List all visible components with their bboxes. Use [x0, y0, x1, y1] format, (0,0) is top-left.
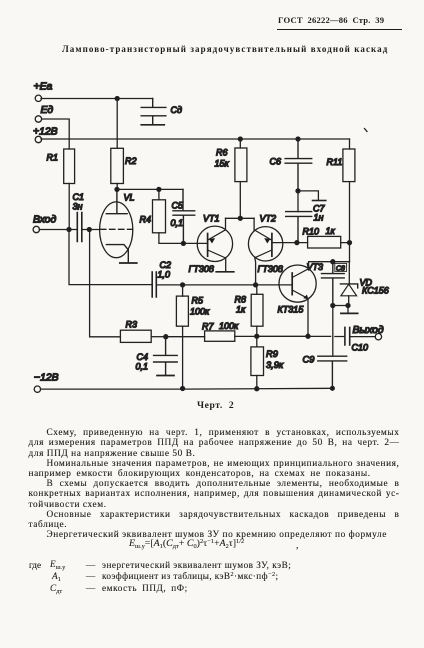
capacitor C2 1,0 (feedback): [152, 260, 171, 297]
terminal Вход: [33, 215, 56, 233]
wire VT3 collector line: [309, 261, 350, 263]
wire R4 bottom to VT1 base: [159, 233, 208, 244]
transistor VT3 КТ315: [278, 262, 324, 315]
svg-text:R6: R6: [216, 148, 228, 158]
svg-text:0,1: 0,1: [136, 362, 149, 372]
svg-text:R8: R8: [235, 295, 247, 305]
wire +Ea rail: [41, 98, 153, 100]
wire R2 bottom to anode node: [116, 184, 118, 190]
node C9 bottom rail corner: [331, 386, 335, 390]
wire input to C1: [39, 229, 77, 231]
svg-text:R1: R1: [47, 153, 59, 163]
svg-text:R2: R2: [125, 156, 137, 166]
page header: [278, 15, 403, 25]
node R9 bottom rail: [255, 387, 259, 391]
resistor R9 3,9к: [251, 347, 284, 376]
capacitor C1 3н: [73, 192, 85, 242]
wire VT3 collector up: [308, 262, 310, 269]
capacitor C8: [322, 262, 347, 306]
node R8/R9/output line: [255, 334, 259, 338]
svg-text:С2: С2: [160, 260, 172, 270]
node R5 bottom rail: [181, 387, 185, 391]
transistor VT1 ГТ308: [189, 214, 233, 275]
ground for Сд: [141, 124, 164, 126]
capacitor C9: [303, 355, 347, 389]
resistor R4: [140, 200, 166, 233]
resistor R3: [120, 320, 151, 343]
wire C10 to output terminal: [350, 336, 375, 338]
ground for C6/C7 node: [313, 200, 326, 202]
ground for zener: [341, 312, 358, 314]
node R10 right / R11 column: [348, 241, 352, 245]
svg-text:ГТ308: ГТ308: [189, 264, 214, 274]
node C8 bottom: [331, 304, 335, 308]
wire R10 leads: [297, 242, 350, 244]
node R4 top: [157, 187, 161, 191]
resistor R11: [327, 149, 355, 182]
resistor R2: [111, 148, 137, 183]
capacitor C4 0,1: [136, 337, 178, 375]
wire R6 leads: [239, 139, 241, 218]
schematic SVG placeholder: [0, 0, 424, 424]
svg-text:С6: С6: [270, 157, 282, 167]
wire R7 line: [166, 335, 308, 337]
wire C8 bottom to zener anode: [333, 306, 348, 313]
svg-text:VT2: VT2: [260, 214, 277, 224]
wire feedback line C2 to VT3 base: [157, 284, 292, 286]
wire R3 right to node X: [151, 336, 166, 338]
resistor R7 100к: [202, 321, 239, 341]
svg-text:1,0: 1,0: [158, 270, 171, 280]
node R10 left: [295, 241, 299, 245]
body paragraphs: [29, 428, 400, 540]
node X (R3/R7/C4): [164, 335, 168, 339]
wire -12В rail: [41, 387, 333, 390]
wire VT2 emitter up: [253, 218, 255, 230]
resistor R5 100к: [176, 296, 210, 327]
svg-text:0,1: 0,1: [171, 218, 184, 228]
node C6 top: [296, 137, 300, 141]
definitions list: [29, 560, 41, 570]
wire C1 to tube grid: [82, 229, 100, 231]
svg-text:R9: R9: [266, 349, 278, 359]
terminal -12В: [34, 373, 59, 393]
terminal Выход: [353, 325, 384, 340]
ground for C4: [157, 375, 174, 377]
resistor R8 1к: [235, 294, 264, 326]
svg-text:+12В: +12В: [33, 127, 58, 138]
svg-text:Выход: Выход: [353, 325, 384, 336]
svg-text:R7: R7: [202, 322, 214, 332]
transistor VT2 ГТ308: [248, 214, 283, 275]
node anode: [115, 187, 119, 191]
svg-text:Ед: Ед: [41, 105, 54, 116]
capacitor C6: [270, 139, 312, 191]
node C8 top: [331, 260, 335, 264]
zener diode VD КС156: [340, 262, 388, 306]
svg-text:1к: 1к: [236, 305, 246, 315]
svg-text:Вход: Вход: [33, 215, 56, 226]
resistor R6 15к: [215, 148, 247, 182]
wire R11 column: [349, 139, 351, 262]
node zener anode: [346, 304, 350, 308]
node R5 top: [181, 283, 185, 287]
svg-text:1н: 1н: [314, 213, 324, 223]
wire R5 leads: [182, 285, 184, 389]
svg-text:С5: С5: [172, 201, 184, 211]
capacitor C10: [345, 327, 368, 352]
node input/R1: [67, 228, 71, 232]
wire Ед to R1: [42, 119, 70, 149]
formula: [0, 536, 424, 538]
wire VT1 collector down: [225, 258, 227, 271]
capacitor C7 1н: [286, 191, 326, 243]
svg-text:С10: С10: [352, 343, 369, 353]
svg-text:−12В: −12В: [34, 373, 59, 384]
svg-text:R5: R5: [192, 296, 204, 306]
svg-text:3,9к: 3,9к: [266, 360, 284, 370]
wire VT1 emitter up: [225, 218, 227, 230]
wire R4 top lead: [158, 189, 160, 199]
terminal Ед: [35, 105, 53, 122]
svg-text:1к: 1к: [326, 226, 336, 236]
svg-text:Сд: Сд: [171, 105, 182, 115]
svg-text:3н: 3н: [73, 202, 83, 212]
node junction +Ea/R2 column: [115, 97, 119, 101]
node C5 bottom: [181, 241, 185, 245]
wire +12В rail: [41, 138, 350, 140]
svg-text:R11: R11: [327, 157, 343, 167]
svg-text:С4: С4: [137, 352, 149, 362]
node R6 top: [238, 137, 242, 141]
wire anode line: [117, 188, 183, 190]
figure caption: [197, 400, 234, 411]
node grid: [87, 228, 91, 232]
wire R1 bottom to input node: [68, 184, 70, 230]
svg-text:15к: 15к: [215, 159, 230, 169]
title: [62, 44, 388, 54]
wire input node down to feedback line: [69, 230, 152, 285]
wire VT2 collector down: [254, 258, 257, 285]
node R6 bottom: [238, 216, 242, 220]
svg-text:ГТ308: ГТ308: [258, 264, 283, 274]
svg-text:100к: 100к: [190, 307, 210, 317]
svg-text:VT1: VT1: [203, 214, 220, 224]
svg-text:+Еа: +Еа: [34, 82, 53, 93]
ground for tube cathode: [120, 262, 137, 264]
wire grid node down to R3: [90, 230, 121, 337]
wire R2 column from +Ea to R2: [116, 99, 118, 149]
wire R8 leads: [256, 285, 258, 336]
svg-text:С1: С1: [73, 192, 85, 202]
wire stub to ground (C6/C7 node): [298, 191, 318, 200]
capacitor Сд: [141, 99, 182, 125]
node VT2 collector / R8 / feedback: [254, 283, 258, 287]
svg-text:R4: R4: [140, 215, 152, 225]
terminal +12В: [33, 127, 58, 143]
node C6 bottom: [296, 189, 300, 193]
wire R9 leads: [256, 336, 258, 388]
terminal +Ea: [34, 82, 53, 102]
tube VL: [100, 189, 135, 262]
svg-text:С9: С9: [303, 355, 315, 365]
svg-text:КС156: КС156: [362, 286, 389, 296]
wire VT2 base to R10: [272, 242, 297, 244]
svg-text:VL: VL: [124, 193, 135, 203]
svg-text:R10: R10: [303, 227, 320, 237]
svg-text:КТ315: КТ315: [278, 305, 305, 315]
svg-text:С8: С8: [336, 266, 345, 273]
wire C9 column (crosses output line): [332, 306, 334, 357]
wire output line VT3 emitter to C10: [308, 335, 344, 337]
capacitor C5 0,1: [171, 189, 195, 243]
svg-text:R3: R3: [126, 320, 138, 330]
resistor R10 1к: [303, 226, 341, 248]
resistor R1: [47, 149, 75, 184]
wire emitter tie R6: [226, 217, 255, 219]
wire VT3 emitter down: [307, 299, 309, 337]
node VT3 emitter / output line: [306, 334, 310, 338]
stray scan mark: [365, 129, 368, 132]
svg-text:100к: 100к: [219, 321, 239, 331]
ground for VT1 collector: [216, 271, 234, 273]
